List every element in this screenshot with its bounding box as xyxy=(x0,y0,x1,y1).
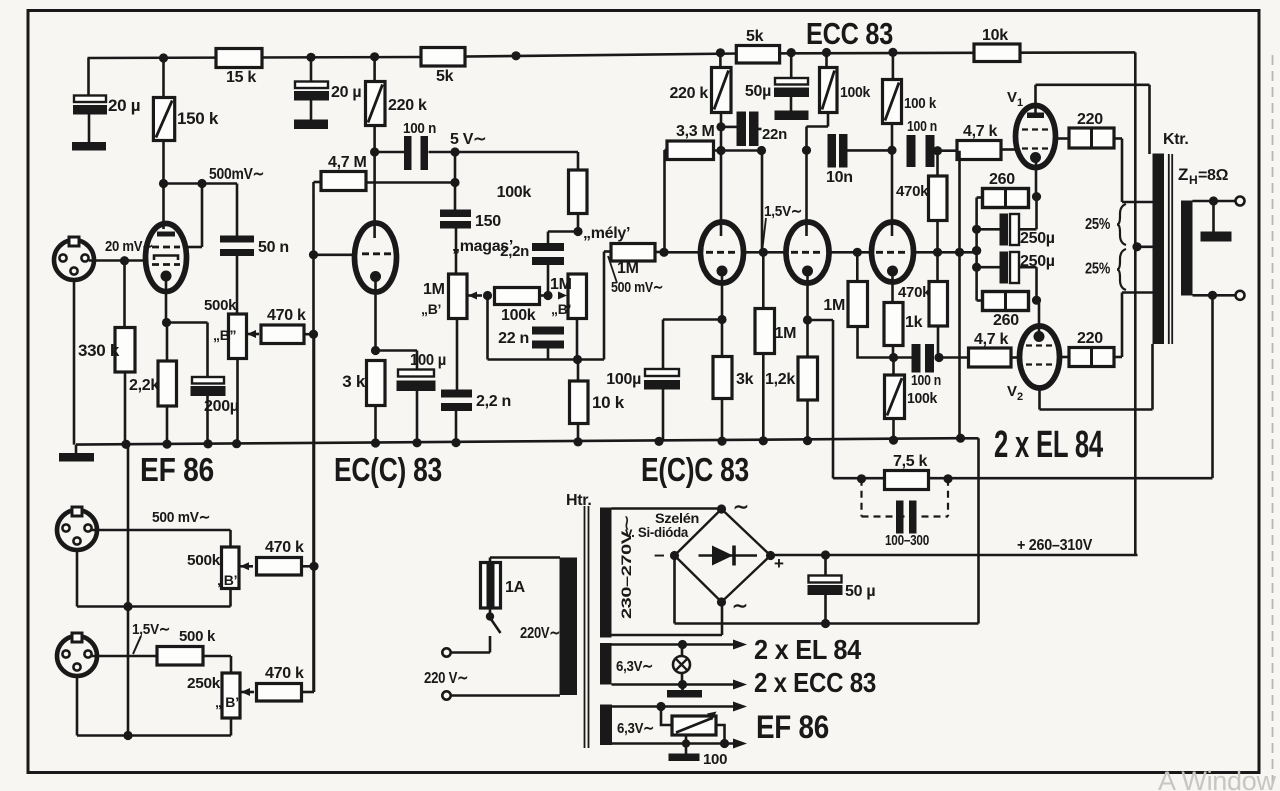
svg-text:1M: 1M xyxy=(617,260,639,277)
svg-text:22 n: 22 n xyxy=(498,330,529,347)
svg-text:=8Ω: =8Ω xyxy=(1198,167,1229,184)
svg-text:470 k: 470 k xyxy=(265,665,304,682)
svg-text:3 k: 3 k xyxy=(342,372,366,391)
svg-text:50µ: 50µ xyxy=(745,83,771,100)
svg-text:V: V xyxy=(1007,383,1017,400)
svg-text:5 V∼: 5 V∼ xyxy=(450,131,486,148)
svg-text:V: V xyxy=(1007,89,1017,106)
svg-text:Z: Z xyxy=(1178,165,1188,184)
svg-text:470 k: 470 k xyxy=(265,539,304,556)
svg-text:220: 220 xyxy=(1077,111,1103,128)
svg-text:20 mV∼: 20 mV∼ xyxy=(105,238,153,255)
svg-text:2 x EL 84: 2 x EL 84 xyxy=(754,634,862,665)
svg-text:220V∼: 220V∼ xyxy=(520,625,560,642)
svg-text:1k: 1k xyxy=(905,314,923,331)
svg-text:„ B”: „ B” xyxy=(215,694,242,710)
svg-text:EC(C) 83: EC(C) 83 xyxy=(334,451,442,488)
svg-text:100k: 100k xyxy=(907,390,938,407)
svg-text:50 n: 50 n xyxy=(258,239,289,256)
svg-text:Ktr.: Ktr. xyxy=(1163,131,1188,148)
svg-text:1M: 1M xyxy=(550,276,572,293)
svg-text:1M: 1M xyxy=(823,297,845,314)
svg-text:100 n: 100 n xyxy=(403,120,436,137)
svg-text:∼: ∼ xyxy=(733,497,749,518)
svg-text:500k: 500k xyxy=(187,552,221,569)
svg-text:150: 150 xyxy=(475,213,501,230)
svg-text:3,3 M: 3,3 M xyxy=(676,123,715,140)
svg-text:260: 260 xyxy=(989,171,1015,188)
svg-text:1A: 1A xyxy=(505,579,526,596)
svg-text:22n: 22n xyxy=(762,126,787,143)
svg-text:500 mV∼: 500 mV∼ xyxy=(611,279,663,296)
svg-text:„B’: „B’ xyxy=(421,301,441,317)
svg-text:500mV∼: 500mV∼ xyxy=(209,166,264,183)
svg-text:1,2k: 1,2k xyxy=(765,371,795,388)
svg-text:4,7 k: 4,7 k xyxy=(963,123,997,140)
svg-text:200µ: 200µ xyxy=(204,398,239,415)
svg-text:6,3V∼: 6,3V∼ xyxy=(616,658,653,675)
svg-text:+: + xyxy=(774,554,784,573)
svg-text:EF 86: EF 86 xyxy=(140,451,214,488)
svg-text:100 k: 100 k xyxy=(904,95,937,112)
svg-text:100k: 100k xyxy=(497,184,532,201)
svg-text:5k: 5k xyxy=(436,68,454,85)
svg-text:250k: 250k xyxy=(187,675,221,692)
svg-text:1,5V∼: 1,5V∼ xyxy=(764,203,802,220)
svg-text:15 k: 15 k xyxy=(226,69,256,86)
svg-text:10n: 10n xyxy=(826,169,853,186)
svg-text:100µ: 100µ xyxy=(606,371,641,388)
svg-text:220 V∼: 220 V∼ xyxy=(424,670,468,687)
svg-text:10 k: 10 k xyxy=(592,393,625,412)
svg-text:2 x EL 84: 2 x EL 84 xyxy=(994,424,1103,466)
svg-text:330 k: 330 k xyxy=(78,341,120,360)
svg-text:EF 86: EF 86 xyxy=(756,709,829,745)
svg-text:470k: 470k xyxy=(898,284,931,301)
svg-text:20 µ: 20 µ xyxy=(108,96,140,115)
svg-text:„B”: „B” xyxy=(213,327,236,343)
svg-text:„B”: „B” xyxy=(217,572,240,588)
svg-text:„B’: „B’ xyxy=(551,301,571,317)
svg-text:1: 1 xyxy=(1017,97,1023,109)
svg-text:260: 260 xyxy=(993,312,1019,329)
svg-text:500 mV∼: 500 mV∼ xyxy=(152,509,210,526)
svg-text:100: 100 xyxy=(703,751,727,768)
svg-text:10k: 10k xyxy=(982,27,1008,44)
svg-text:220: 220 xyxy=(1077,330,1103,347)
svg-text:470k: 470k xyxy=(896,183,929,200)
svg-text:470 k: 470 k xyxy=(267,307,306,324)
svg-text:2,2k: 2,2k xyxy=(129,377,159,394)
svg-text:∼: ∼ xyxy=(732,596,748,617)
svg-text:50 µ: 50 µ xyxy=(845,583,875,600)
svg-text:E(C)C 83: E(C)C 83 xyxy=(641,451,749,488)
svg-text:220 k: 220 k xyxy=(388,97,427,114)
svg-text:100 n: 100 n xyxy=(907,118,937,135)
svg-text:2,2 n: 2,2 n xyxy=(476,393,511,410)
svg-text:100k: 100k xyxy=(501,307,536,324)
svg-text:25%: 25% xyxy=(1085,216,1110,233)
svg-text:100–300: 100–300 xyxy=(885,532,929,549)
svg-text:H: H xyxy=(1189,173,1197,187)
svg-text:100 n: 100 n xyxy=(911,372,941,389)
svg-text:250µ: 250µ xyxy=(1020,253,1055,270)
svg-text:7,5 k: 7,5 k xyxy=(893,453,927,470)
svg-text:5k: 5k xyxy=(746,28,764,45)
svg-text:+ 260–310V: + 260–310V xyxy=(1017,537,1093,554)
svg-text:25%: 25% xyxy=(1085,261,1110,278)
svg-text:20 µ: 20 µ xyxy=(331,84,361,101)
svg-text:220 k: 220 k xyxy=(669,85,708,102)
svg-text:4,7 M: 4,7 M xyxy=(328,154,367,171)
svg-text:ECC 83: ECC 83 xyxy=(806,16,893,51)
svg-text:v. Si-dióda: v. Si-dióda xyxy=(625,524,688,540)
svg-text:4,7 k: 4,7 k xyxy=(974,331,1008,348)
svg-text:500k: 500k xyxy=(204,297,237,314)
svg-text:1M: 1M xyxy=(423,281,445,298)
svg-text:150 k: 150 k xyxy=(177,109,219,128)
svg-text:„magas’: „magas’ xyxy=(452,238,513,255)
svg-text:250µ: 250µ xyxy=(1020,230,1055,247)
svg-text:3k: 3k xyxy=(736,371,754,388)
svg-text:500 k: 500 k xyxy=(179,628,216,645)
svg-text:1M: 1M xyxy=(775,325,797,342)
svg-text:–: – xyxy=(654,545,664,566)
svg-text:„mély’: „mély’ xyxy=(583,225,630,242)
svg-text:A Window: A Window xyxy=(1158,766,1276,791)
svg-text:100k: 100k xyxy=(840,84,871,101)
svg-text:6,3V∼: 6,3V∼ xyxy=(617,720,654,737)
svg-text:2 x ECC 83: 2 x ECC 83 xyxy=(754,667,876,698)
svg-text:1,5V∼: 1,5V∼ xyxy=(132,621,170,638)
svg-text:100 µ: 100 µ xyxy=(410,352,446,369)
svg-text:2: 2 xyxy=(1017,391,1023,403)
